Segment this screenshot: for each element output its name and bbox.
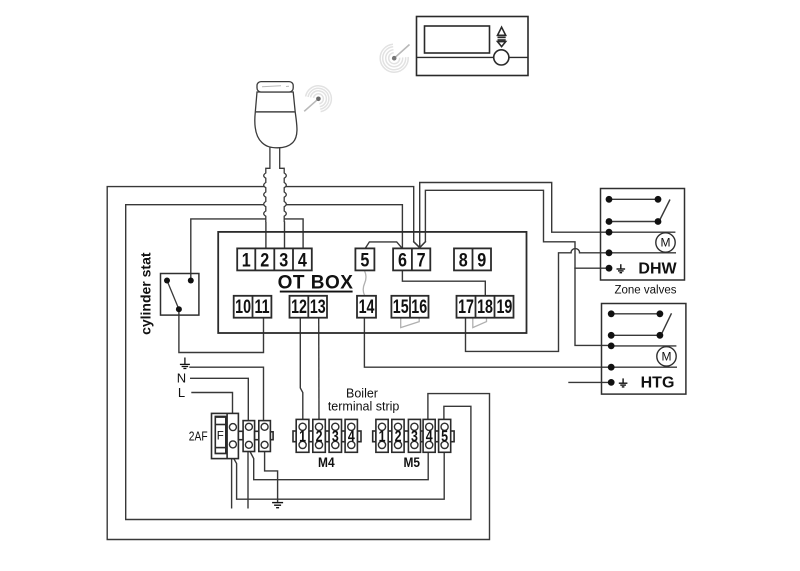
svg-text:7: 7 <box>417 249 426 271</box>
svg-text:5: 5 <box>360 249 369 271</box>
svg-text:14: 14 <box>359 296 375 317</box>
svg-text:3: 3 <box>411 427 418 445</box>
svg-text:DHW: DHW <box>638 261 677 278</box>
svg-text:1: 1 <box>299 427 306 445</box>
svg-text:3: 3 <box>279 249 288 271</box>
svg-text:M: M <box>662 350 672 364</box>
svg-text:terminal strip: terminal strip <box>328 399 400 413</box>
svg-text:F: F <box>217 431 224 443</box>
svg-text:4: 4 <box>348 427 355 445</box>
svg-text:10: 10 <box>235 296 251 317</box>
svg-text:6: 6 <box>398 249 407 271</box>
svg-text:2: 2 <box>316 427 323 445</box>
svg-text:M5: M5 <box>403 454 420 470</box>
svg-text:15: 15 <box>393 296 409 317</box>
svg-text:1: 1 <box>242 249 251 271</box>
svg-text:M: M <box>661 236 671 250</box>
svg-text:Zone valves: Zone valves <box>614 285 676 297</box>
svg-text:18: 18 <box>477 296 493 317</box>
svg-text:17: 17 <box>458 296 474 317</box>
svg-text:19: 19 <box>496 296 512 317</box>
svg-text:8: 8 <box>459 249 468 271</box>
svg-text:4: 4 <box>298 249 307 271</box>
svg-text:N: N <box>177 371 186 386</box>
svg-text:2AF: 2AF <box>189 430 208 443</box>
svg-text:4: 4 <box>426 427 433 445</box>
svg-text:2: 2 <box>395 427 402 445</box>
svg-text:11: 11 <box>254 296 269 317</box>
svg-text:L: L <box>178 385 185 400</box>
svg-text:13: 13 <box>310 296 326 317</box>
svg-text:cylinder stat: cylinder stat <box>138 252 154 335</box>
svg-text:2: 2 <box>260 249 269 271</box>
svg-text:5: 5 <box>441 427 448 445</box>
svg-text:9: 9 <box>477 249 486 271</box>
svg-text:3: 3 <box>332 427 339 445</box>
svg-text:1: 1 <box>379 427 386 445</box>
svg-text:M4: M4 <box>318 454 335 470</box>
svg-text:12: 12 <box>291 296 307 317</box>
svg-text:OT BOX: OT BOX <box>278 272 354 293</box>
svg-text:HTG: HTG <box>641 375 675 392</box>
svg-text:16: 16 <box>411 296 427 317</box>
